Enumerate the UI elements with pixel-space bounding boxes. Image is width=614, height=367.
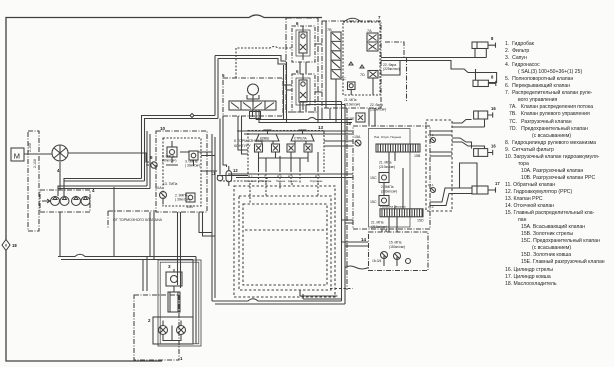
relief 7C <box>348 82 356 90</box>
svg-text:15B: 15B <box>414 154 421 158</box>
wire valve5 to main valve <box>256 110 352 123</box>
svg-text:3: 3 <box>168 264 171 269</box>
PPC valve 13 box <box>248 131 324 175</box>
tank unit outer box 1 <box>134 295 179 360</box>
boom cylinder 16 top <box>474 111 488 119</box>
svg-text:16: 16 <box>491 144 496 149</box>
wire left drop to tank <box>150 212 154 260</box>
svg-text:12: 12 <box>233 168 238 173</box>
svg-text:13: 13 <box>318 125 324 130</box>
gear pump P3 <box>72 197 81 206</box>
svg-text:10A: 10A <box>155 186 162 190</box>
svg-text:(150кг/см²): (150кг/см²) <box>389 245 405 249</box>
wire box16 links <box>430 131 452 156</box>
svg-text:1: 1 <box>180 356 183 361</box>
svg-text:8: 8 <box>491 75 494 80</box>
accumulator 12 <box>226 171 232 182</box>
wire accumulator drop <box>220 116 227 175</box>
wire valve5 right verticals <box>284 62 293 123</box>
wire pump outputs <box>58 131 215 344</box>
wire tank return top line <box>6 15 322 240</box>
svg-text:15D: 15D <box>417 219 424 223</box>
wire cooler to tank bottom <box>6 251 162 362</box>
steering valve 7 box <box>322 21 381 108</box>
wire valve5 to PPC <box>238 116 248 154</box>
shutoff valve 6 lower spool <box>296 78 310 105</box>
pilot hose dashed box inner <box>243 204 327 285</box>
svg-text:ОТ ТОРМОЗНОГО КЛАПАНА: ОТ ТОРМОЗНОГО КЛАПАНА <box>113 218 162 222</box>
svg-text:15. МПа: 15. МПа <box>389 241 402 245</box>
gear pump P4 <box>81 197 90 206</box>
motor M1 <box>11 148 24 161</box>
svg-text:10B: 10B <box>186 205 193 209</box>
wire dashed pilot to 6 <box>236 47 292 79</box>
suction valve 15A <box>355 140 361 146</box>
svg-text:21. МПа: 21. МПа <box>344 98 357 102</box>
shutoff valves outer box <box>286 18 318 112</box>
safety valve 15C <box>379 173 389 183</box>
pilot dashdot to 8 <box>385 42 407 102</box>
wire valve5 to valve15 <box>237 131 352 134</box>
svg-text:Ковшом: Ковшом <box>246 180 256 183</box>
PPC lever boom <box>291 130 314 141</box>
filter 2b <box>177 326 186 335</box>
svg-text:( 30кг/см²): ( 30кг/см²) <box>185 164 200 168</box>
wire valve5 bottom to pumps <box>142 116 219 182</box>
accumulator charge valve 10 box <box>156 131 207 212</box>
svg-text:2: 2 <box>148 318 151 323</box>
pilot dashed drops from PPC <box>250 170 318 204</box>
svg-text:13. 7МПа: 13. 7МПа <box>163 182 177 186</box>
oil cooler 18 <box>2 240 10 251</box>
PPC reducing valves <box>255 144 263 152</box>
cutoff valve 14 box <box>369 232 429 271</box>
svg-text:КОВШ: КОВШ <box>260 137 269 141</box>
pilot hose dashed box outer <box>234 186 335 297</box>
wire 14 left links <box>342 220 387 269</box>
svg-text:7B: 7B <box>327 28 332 32</box>
legend text <box>505 41 614 288</box>
unload valve 10A <box>167 147 177 157</box>
coupling box <box>28 131 39 231</box>
svg-text:2. 9МПа: 2. 9МПа <box>381 185 394 189</box>
shutoff valve 6 spool <box>296 30 310 56</box>
wire ppc tank line <box>220 177 267 181</box>
PPC lever bucket <box>256 130 279 141</box>
pilot dashdot column <box>346 108 348 290</box>
svg-text:6: 6 <box>296 69 299 74</box>
svg-text:15C: 15C <box>370 200 377 204</box>
bucket cylinder 17 <box>472 186 488 194</box>
gear pump P2 <box>60 197 69 206</box>
relief 15E <box>356 113 365 122</box>
svg-text:(210кг/см²): (210кг/см²) <box>371 225 387 229</box>
svg-text:17: 17 <box>495 181 500 186</box>
valve 10B lower <box>186 193 195 202</box>
svg-text:M: M <box>14 152 20 161</box>
svg-text:(225кг/см²): (225кг/см²) <box>370 108 386 112</box>
wire suction line <box>143 257 147 291</box>
svg-text:14: 14 <box>361 237 367 242</box>
svg-text:7A: 7A <box>367 29 372 33</box>
shutoff valve 6 top box <box>292 26 315 62</box>
gear pump P1 <box>51 197 60 206</box>
swing valve 5 pilot circle <box>248 84 259 95</box>
wire drive shaft <box>42 162 60 203</box>
wire brake drop <box>212 134 215 301</box>
wire 7 to steering cylinder 8b <box>381 61 497 83</box>
svg-text:КОНТУРУ: КОНТУРУ <box>234 144 251 148</box>
svg-text:(90кг/см²): (90кг/см²) <box>162 159 176 163</box>
valve 5 tank port block <box>250 112 261 119</box>
7 internal wires <box>326 21 373 108</box>
svg-text:16-3/4: 16-3/4 <box>372 259 382 263</box>
shutoff valve 6 lower box <box>292 74 315 112</box>
flow divider spool 7A <box>367 33 378 51</box>
pilot hose divider <box>245 229 327 231</box>
svg-text:18: 18 <box>12 243 17 248</box>
pump fan 4 <box>52 145 68 161</box>
steering spool 7B <box>331 32 341 79</box>
wire valve5 feed loop top <box>215 56 286 65</box>
steering cylinder 8 bottom <box>473 80 488 86</box>
wire to ppc <box>198 152 215 156</box>
relief 7D <box>368 71 378 79</box>
svg-text:15E: 15E <box>348 117 355 121</box>
svg-text:21. МПа: 21. МПа <box>371 221 384 225</box>
svg-text:17-1: 17-1 <box>428 183 434 187</box>
svg-text:5: 5 <box>222 73 225 78</box>
wire pump to valve10 <box>68 153 149 165</box>
svg-text:(225кг/см²): (225кг/см²) <box>383 67 400 71</box>
unload valve 10B top <box>189 151 198 160</box>
swing valve 5 box <box>223 78 283 116</box>
steering cylinder 8 top <box>472 42 488 49</box>
wire 15 to bucket cylinder <box>430 188 472 206</box>
svg-text:21. МПа: 21. МПа <box>379 161 392 165</box>
main control valve 15 box <box>353 126 430 229</box>
svg-text:22. бара: 22. бара <box>370 103 383 107</box>
svg-text:Разгрузка Загрузка: Разгрузка Загрузка <box>380 205 406 209</box>
pilot hose dashed box mid <box>239 196 331 290</box>
svg-text:6: 6 <box>296 21 299 26</box>
wire bottom return loop <box>212 290 345 304</box>
svg-text:Ковшом: Ковшом <box>288 180 298 183</box>
svg-text:2-108: 2-108 <box>28 143 32 152</box>
filter 2a <box>159 326 168 335</box>
node junction <box>190 114 194 118</box>
boom cylinder 16 bottom <box>474 149 488 157</box>
boom spool 15B <box>376 144 420 152</box>
swing valve 5 spool <box>229 101 276 110</box>
svg-text:(210кг/см²): (210кг/см²) <box>379 165 395 169</box>
wire main pressure line mid <box>315 44 322 123</box>
svg-text:7D: 7D <box>360 73 365 77</box>
svg-text:СТРЕЛА: СТРЕЛА <box>294 137 307 141</box>
wire M to pump <box>24 153 52 155</box>
svg-text:9: 9 <box>150 155 153 160</box>
svg-text:8: 8 <box>491 36 494 41</box>
svg-text:10: 10 <box>160 126 166 131</box>
pump group 4 box <box>40 190 90 212</box>
wire valve10 to accumulator <box>201 166 248 186</box>
svg-text:2-108: 2-108 <box>33 159 37 168</box>
wire 15 to boom cylinder 16a <box>452 119 485 127</box>
svg-text:16: 16 <box>491 106 496 111</box>
PPC internal wires <box>259 141 319 170</box>
svg-text:(230кг/см²): (230кг/см²) <box>381 190 397 194</box>
inner box 10 <box>163 138 201 206</box>
filters 2 box <box>153 317 193 344</box>
wire 16a to 16b link <box>452 138 485 149</box>
brake line dashdot <box>108 210 156 212</box>
tank inner box <box>158 260 201 346</box>
wire valve6 drops <box>300 62 345 304</box>
svg-text:Пов. Опуск. Подъем: Пов. Опуск. Подъем <box>374 135 401 139</box>
strainer 9 <box>151 162 157 168</box>
load check block box <box>426 120 452 211</box>
svg-text:Опускание: Опускание <box>310 180 323 183</box>
bucket spool 15D <box>380 209 423 217</box>
wire accumulator to valve15 <box>228 141 353 178</box>
svg-text:15A: 15A <box>354 135 361 139</box>
wire valve5 feed loop left <box>215 56 218 119</box>
svg-text:15C: 15C <box>370 176 377 180</box>
safety valve 15C lower <box>379 196 389 206</box>
wire 15 internal links <box>384 152 403 266</box>
inner pilot compartment <box>343 22 380 95</box>
wire 7 aux loop <box>381 61 400 76</box>
svg-text:Подъем: Подъем <box>276 180 285 183</box>
svg-text:7: 7 <box>378 15 381 20</box>
wire 7 bottom drops <box>330 108 375 126</box>
valve body outline <box>369 129 411 228</box>
svg-text:(210кг/см²): (210кг/см²) <box>344 103 360 107</box>
check valve 11 <box>217 175 223 181</box>
strainer column <box>168 292 180 312</box>
wire 17 over link <box>460 163 478 188</box>
svg-text:7C: 7C <box>341 77 346 81</box>
wire 7 to steering cylinder 8a <box>381 49 486 58</box>
